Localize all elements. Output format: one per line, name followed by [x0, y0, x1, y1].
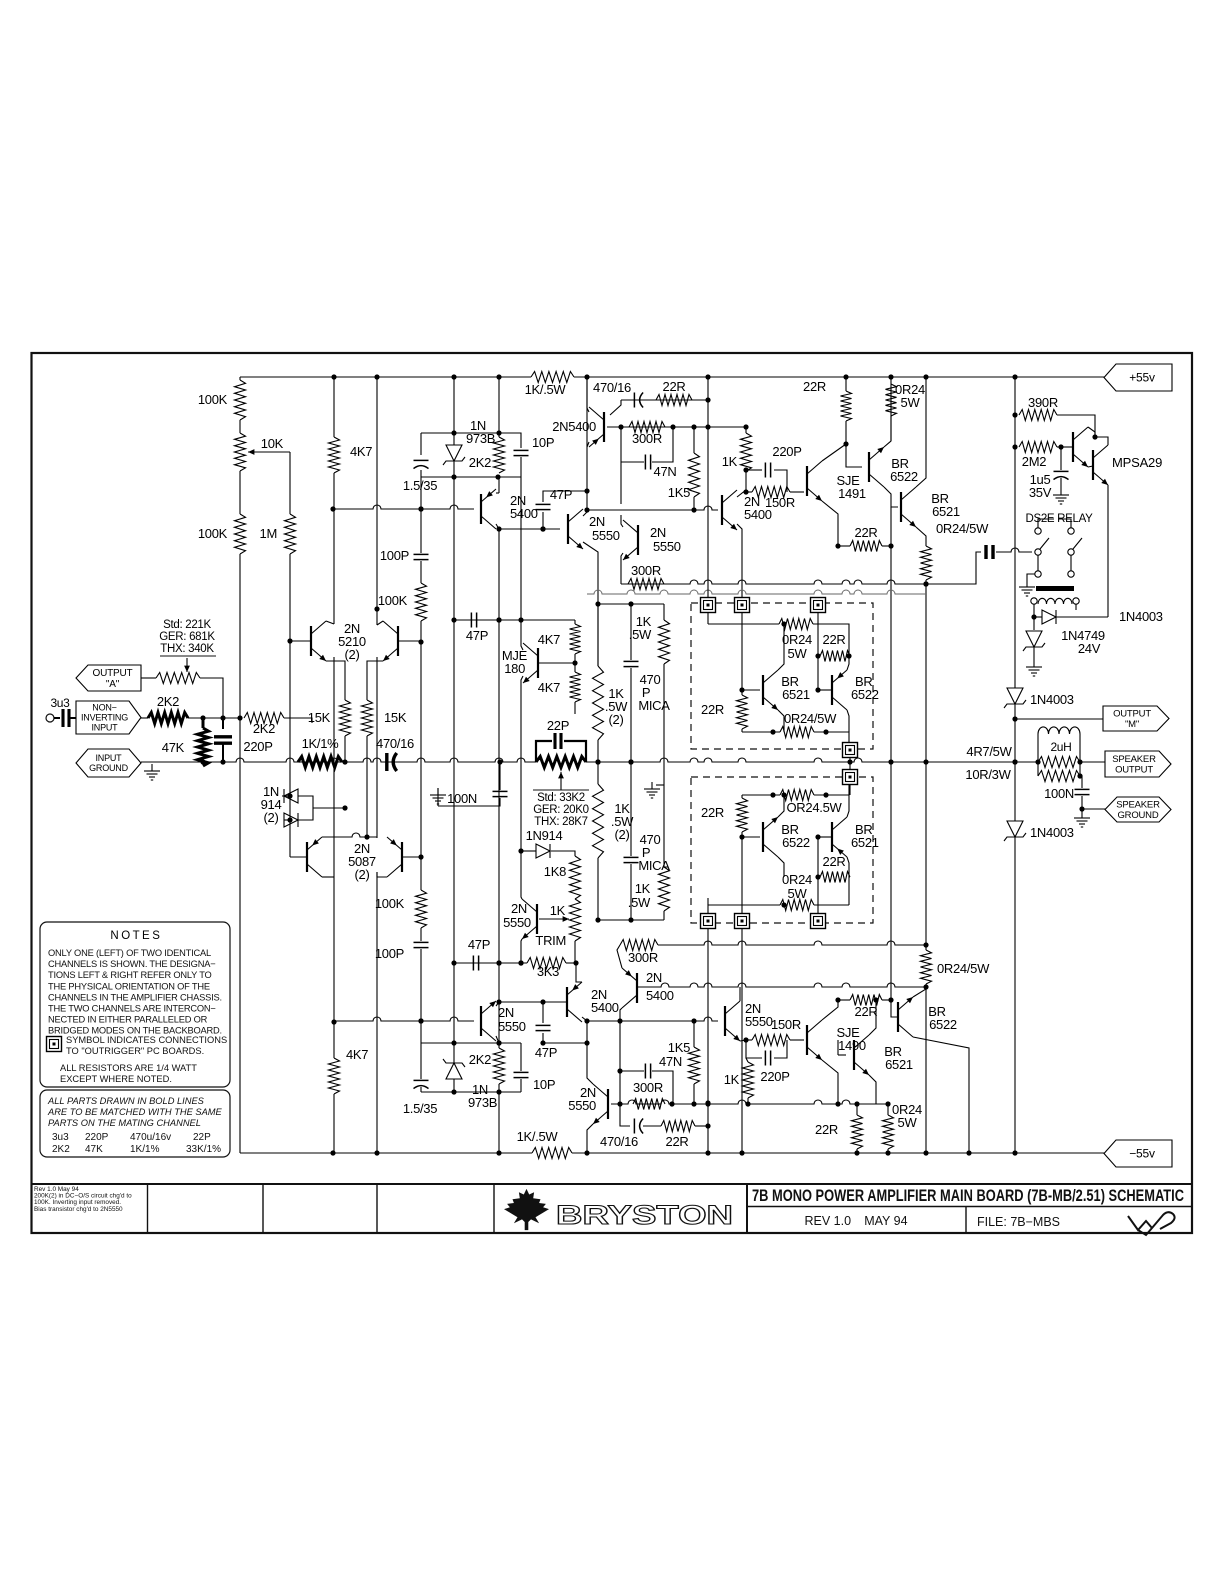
svg-text:GROUND: GROUND [1117, 810, 1158, 821]
junction [873, 997, 878, 1002]
svg-text:24V: 24V [1078, 641, 1101, 656]
capacitor 470/16 bold [387, 753, 397, 771]
wire x1015 lower [1014, 837, 1016, 1153]
wire y987 row [637, 983, 926, 987]
svg-text:6521: 6521 [932, 504, 960, 519]
label 22R [855, 1004, 878, 1019]
junction [595, 759, 600, 764]
Bryston logo text [556, 1200, 733, 1230]
svg-text:5400: 5400 [591, 1000, 619, 1015]
label 2N5550 [511, 901, 527, 916]
svg-text:−55v: −55v [1129, 1147, 1155, 1161]
junction [331, 1019, 336, 1024]
svg-text:0R24/5W: 0R24/5W [936, 521, 989, 536]
label 4K7 [538, 632, 560, 647]
diode 1N4003 lower [1004, 821, 1026, 841]
label 2N5400 [510, 493, 526, 508]
label 47N [654, 464, 677, 479]
label 1N4003 [1119, 609, 1163, 624]
wire to speaker flag [1080, 761, 1105, 763]
wire collector [913, 987, 926, 997]
zener 1N973B lower [443, 1059, 465, 1079]
junction [287, 638, 292, 643]
junction [595, 601, 600, 606]
capacitor 1.5/35 [414, 460, 429, 468]
label SJE1491 [837, 473, 861, 488]
resistor 1K/.5W rail top [531, 372, 574, 383]
wire [1057, 446, 1073, 448]
transistor 2N5550 VAS lower [481, 1001, 496, 1041]
junction [518, 848, 523, 853]
junction [1077, 759, 1082, 764]
capacitor 1.5/35 lower [414, 1080, 429, 1088]
label 15K [384, 710, 407, 725]
label 47P [550, 487, 572, 502]
label 10P [533, 1077, 555, 1092]
resistor 1K TRIM pot [570, 899, 581, 941]
wire x891 mid [890, 546, 892, 762]
resistor 100K second [235, 514, 246, 554]
wire [498, 1043, 500, 1048]
border frame [32, 353, 1193, 1233]
transistor 2N5550 trim [522, 899, 537, 939]
label 100P [375, 946, 404, 961]
wire emitter to outrigger [737, 524, 742, 598]
svg-text:4K7: 4K7 [538, 680, 560, 695]
notes outrigger text [66, 1035, 227, 1056]
svg-text:GER: 681K: GER: 681K [159, 631, 215, 643]
svg-text:47K: 47K [85, 1144, 103, 1155]
junction [770, 792, 775, 797]
wire x742 box1 [741, 612, 743, 690]
junction [923, 984, 928, 989]
junction [923, 581, 928, 586]
SPEAKER OUTPUT flag [1105, 751, 1171, 777]
svg-text:300R: 300R [628, 950, 658, 965]
svg-text:100K: 100K [378, 593, 408, 608]
svg-text:22R: 22R [823, 632, 846, 647]
wire y1021 left [333, 1017, 474, 1024]
label 22R [803, 379, 826, 394]
svg-text:2M2: 2M2 [1022, 454, 1046, 469]
wire collector 1 [1088, 427, 1095, 437]
wire left rail x240 [239, 554, 241, 1153]
wire 390R to collector [1057, 415, 1095, 437]
label BR6522 [891, 456, 908, 471]
resistor 1K8 [570, 856, 581, 899]
wire collector right 5087 [377, 872, 387, 877]
wire [202, 718, 205, 728]
wire base [838, 1054, 846, 1056]
wire x926 lower [925, 984, 927, 1153]
outrigger connection [701, 914, 716, 929]
label 0R24 5W [895, 382, 925, 397]
resistor 15K left [340, 700, 351, 736]
wire [693, 1021, 695, 1047]
junction [743, 1037, 748, 1042]
svg-text:4K7: 4K7 [350, 444, 372, 459]
wire x587 down [586, 1021, 588, 1043]
capacitor 22P bold [555, 733, 561, 749]
capacitor 47N [645, 455, 650, 470]
-55v supply flag [1104, 1140, 1172, 1167]
wire x421 top [420, 433, 422, 455]
label 2K2 [253, 721, 275, 736]
wire emitter x969 [913, 1037, 969, 1153]
svg-text:1K5: 1K5 [668, 485, 690, 500]
wire x334 to 4K7 [333, 876, 335, 1058]
svg-text:47P: 47P [535, 1045, 557, 1060]
label 2K2 [469, 1052, 491, 1067]
wire collector BR6522 [884, 377, 891, 447]
junction [496, 617, 501, 622]
wire emitter BR6521 [916, 527, 926, 546]
wire 47P drop [542, 1002, 544, 1023]
transistor 2N5400 predriver [722, 490, 737, 530]
wire [420, 1087, 422, 1092]
label 2N5400 [646, 970, 662, 985]
svg-text:3u3: 3u3 [52, 1132, 69, 1143]
wire [693, 497, 695, 510]
label 2uH [1050, 740, 1071, 754]
wire diode tap [313, 807, 345, 809]
transistor 2N5400 lower a [567, 982, 582, 1022]
svg-text:SYMBOL INDICATES CONNECTIONS: SYMBOL INDICATES CONNECTIONS [66, 1035, 227, 1045]
junction [418, 506, 423, 511]
label 150R [771, 1017, 801, 1032]
wire x454 long [453, 620, 455, 963]
wire collector right 5210 [377, 621, 383, 625]
outrigger connection [735, 914, 750, 929]
svg-text:2uH: 2uH [1050, 740, 1071, 754]
svg-text:1K: 1K [724, 1072, 740, 1087]
resistor 3K3 [527, 958, 566, 969]
label 3K3 [537, 964, 559, 979]
svg-text:47K: 47K [162, 740, 185, 755]
label 1K/.5W [525, 382, 567, 397]
svg-text:4K7: 4K7 [346, 1047, 368, 1062]
capacitor 1u5 35V [1054, 471, 1069, 479]
svg-text:5550: 5550 [653, 539, 681, 554]
svg-text:1490: 1490 [838, 1038, 866, 1053]
wire MJE base [538, 662, 575, 664]
svg-text:ARE TO BE MATCHED WITH THE SAM: ARE TO BE MATCHED WITH THE SAME [47, 1107, 223, 1117]
wire 2K2 to node [284, 718, 312, 723]
label 2N5550 [498, 1005, 514, 1020]
svg-text:220P: 220P [772, 444, 801, 459]
outrigger connection [843, 770, 858, 785]
wire collector [739, 987, 741, 1001]
label 100N [1044, 786, 1074, 801]
wire diode loop [298, 796, 313, 820]
svg-text:THE PHYSICAL ORIENTATION OF TH: THE PHYSICAL ORIENTATION OF THE [48, 981, 210, 991]
wire x631 cross mid [630, 668, 632, 856]
label 1N4003 [1030, 825, 1074, 840]
svg-text:10R/3W: 10R/3W [965, 767, 1011, 782]
svg-text:47P: 47P [468, 937, 490, 952]
wire [1034, 616, 1042, 618]
wire x521 down [520, 762, 522, 851]
wire [574, 702, 576, 714]
svg-text:300R: 300R [631, 563, 661, 578]
junction [287, 817, 292, 822]
capacitor 100N [493, 791, 508, 796]
svg-text:10P: 10P [532, 435, 554, 450]
label MPSA29 [1112, 455, 1162, 470]
resistor 2K2 second [244, 713, 284, 724]
diode 1N914 mid [536, 844, 550, 858]
wire emitter 5550b to 300R row [621, 553, 623, 584]
label 1N973B [470, 418, 486, 433]
wire [890, 507, 892, 546]
label OR24.5W [787, 800, 843, 815]
relay arm 2 [1073, 538, 1082, 549]
wire x926 mid [925, 762, 927, 945]
relay arm 1 [1040, 538, 1049, 549]
wire [574, 620, 576, 624]
svg-text:NON−: NON− [92, 703, 116, 713]
svg-text:22R: 22R [663, 379, 686, 394]
junction [815, 834, 820, 839]
svg-text:1N4003: 1N4003 [1030, 825, 1074, 840]
wire -55v rail right [572, 1150, 1104, 1155]
svg-text:5W: 5W [898, 1115, 918, 1130]
wire [693, 1084, 695, 1104]
wire collector [869, 1000, 876, 1035]
wire base BR6522 [818, 689, 832, 691]
SPEAKER GROUND flag [1105, 797, 1171, 822]
svg-text:470/16: 470/16 [600, 1134, 638, 1149]
label 300R [631, 563, 661, 578]
svg-text:EXCEPT WHERE NOTED.: EXCEPT WHERE NOTED. [60, 1074, 172, 1084]
svg-text:22P: 22P [193, 1132, 211, 1143]
capacitor 47P third [536, 1025, 551, 1030]
wire [620, 1070, 644, 1072]
svg-text:150R: 150R [771, 1017, 801, 1032]
wire [849, 784, 851, 795]
wire box1 row [708, 623, 779, 625]
wire [774, 470, 787, 492]
label 22R [666, 1134, 689, 1149]
wire [239, 377, 241, 380]
capacitor 470/16 lower [634, 1119, 643, 1134]
svg-text:100P: 100P [380, 548, 409, 563]
wire [708, 905, 780, 914]
svg-text:100P: 100P [375, 946, 404, 961]
svg-text:10K: 10K [261, 436, 284, 451]
wire x742 box2 [741, 837, 743, 914]
junction [1035, 759, 1040, 764]
svg-text:47P: 47P [466, 628, 488, 643]
inductor 2uH [1038, 727, 1080, 734]
label 47P [466, 628, 488, 643]
junction [1077, 773, 1082, 778]
outrigger connection [843, 743, 858, 758]
svg-text:.5W: .5W [628, 895, 651, 910]
resistor 1K/.5W rail bottom [532, 1148, 572, 1159]
title block divider [262, 1184, 264, 1233]
wire box2 top row [742, 794, 780, 796]
wire y400 row [621, 397, 711, 402]
wire emitter jog to 3K3 [566, 963, 582, 982]
wire x454 top [453, 377, 455, 445]
title block divider [493, 1184, 495, 1233]
wire x334 mid [333, 473, 335, 624]
label 390R [1028, 395, 1058, 410]
wire x621 down [620, 462, 622, 504]
wire [847, 857, 849, 877]
wire 47P to x587 [543, 1033, 587, 1043]
wire 22P loop [536, 741, 552, 762]
label 47N [659, 1054, 682, 1069]
resistor 2K2 bold input [148, 713, 188, 724]
wire emitter to 15K [326, 661, 345, 700]
label 10R/3W [965, 767, 1011, 782]
wire [663, 604, 665, 620]
wire +55v rail right [574, 374, 1104, 379]
svg-text:THX: 28K7: THX: 28K7 [534, 816, 588, 828]
resistor 1K/1% bold [298, 757, 342, 768]
label 1N973B [472, 1082, 488, 1097]
svg-text:REV 1.0 MAY 94: REV 1.0 MAY 94 [804, 1214, 907, 1228]
OUTPUT "M" flag [1103, 706, 1169, 731]
wire 47P to x587 [543, 491, 587, 502]
junction [628, 759, 633, 764]
junction [540, 1040, 545, 1045]
label 22R [701, 805, 724, 820]
svg-text:100N: 100N [1044, 786, 1074, 801]
svg-text:2N: 2N [511, 901, 527, 916]
resistor 100K mid [416, 583, 427, 621]
resistor 4R7/5W [1038, 757, 1080, 768]
resistor 0R24 5W box2 bottom [780, 900, 814, 911]
wire x454 down [453, 963, 455, 1063]
label 1.5/35 [403, 1101, 437, 1116]
capacitor 220P lower [765, 1051, 770, 1066]
wire x499 top [498, 377, 500, 437]
WP signature glyph [1128, 1212, 1175, 1235]
junction [835, 997, 840, 1002]
diode 1N4003 upper [1004, 688, 1026, 708]
label 470/16 [600, 1134, 638, 1149]
wire x664 cross mid [663, 664, 665, 785]
feedback pot arrow [184, 658, 190, 672]
capacitor 10P [514, 450, 529, 455]
relay coil [1038, 598, 1072, 604]
label 100P [380, 548, 409, 563]
junction [496, 960, 501, 965]
label 150R [765, 495, 795, 510]
svg-text:1.5/35: 1.5/35 [403, 1101, 437, 1116]
wire 22P loop [564, 741, 586, 762]
transistor 2N5550 first [568, 509, 583, 549]
zener 1N973B [443, 445, 465, 465]
svg-text:2N: 2N [589, 514, 605, 529]
junction [705, 1100, 710, 1105]
svg-text:10P: 10P [533, 1077, 555, 1092]
svg-text:Bias transistor chg'd to 2N555: Bias transistor chg'd to 2N5550 [34, 1206, 123, 1213]
wire emitter to rail [587, 1124, 593, 1153]
svg-text:Std: 221K: Std: 221K [163, 619, 211, 631]
label 2N5550 [589, 514, 605, 529]
svg-text:47N: 47N [659, 1054, 682, 1069]
resistor 300R mid [628, 579, 664, 590]
notes box [40, 922, 230, 1087]
resistor 1K .5W (2) lower [593, 784, 604, 858]
svg-text:0R24: 0R24 [782, 872, 812, 887]
wire [847, 795, 849, 817]
resistor 22R vert lower [852, 1115, 863, 1149]
junction [617, 1068, 622, 1073]
wire [887, 1149, 889, 1153]
svg-text:22R: 22R [666, 1134, 689, 1149]
wire mid ground line left [141, 758, 536, 765]
wire emitter down [1107, 485, 1109, 617]
wire base line y509 [330, 505, 474, 512]
+55v supply flag [1104, 364, 1172, 391]
svg-text:33K/1%: 33K/1% [186, 1144, 221, 1155]
wire 100N [499, 762, 501, 790]
junction [418, 854, 423, 859]
wire wiper down [289, 452, 291, 514]
svg-text:OUTPUT: OUTPUT [1113, 709, 1151, 720]
wire collector to y1021 [620, 1008, 622, 1021]
junction [743, 467, 748, 472]
junction [835, 543, 840, 548]
wire base [742, 689, 760, 691]
svg-text:1K: 1K [550, 903, 566, 918]
wire inductor right [1079, 734, 1081, 776]
wire [663, 785, 665, 867]
wire [420, 857, 422, 890]
wire [574, 654, 576, 672]
svg-text:7B MONO POWER AMPLIFIER MAIN B: 7B MONO POWER AMPLIFIER MAIN BOARD (7B-M… [752, 1187, 1184, 1205]
wire x587 [586, 447, 588, 510]
underline [533, 789, 589, 791]
svg-text:THE TWO CHANNELS ARE INTERCON−: THE TWO CHANNELS ARE INTERCON− [48, 1004, 216, 1014]
label Std 221K [163, 619, 211, 631]
label 100N [447, 791, 477, 806]
svg-text:100K: 100K [375, 896, 405, 911]
label 470/16 [376, 736, 414, 751]
wire [376, 609, 378, 625]
wire emitter [869, 1075, 876, 1104]
wire [856, 1149, 858, 1153]
wire x891 mid [890, 762, 892, 1000]
resistor 100K lower [416, 890, 427, 928]
wire [239, 420, 241, 433]
wire [707, 898, 709, 905]
transistor MJE180 [523, 643, 538, 683]
wire output M [1015, 718, 1103, 720]
wire x367 down [366, 736, 368, 838]
junction [888, 543, 893, 548]
ground relay [1019, 580, 1035, 596]
wire [344, 736, 346, 762]
junction [496, 526, 501, 531]
label 470P MICA [640, 672, 661, 687]
label 220P [772, 444, 801, 459]
wire [284, 819, 290, 821]
label 22R [823, 854, 846, 869]
svg-text:GER: 20K0: GER: 20K0 [533, 804, 588, 816]
wire [814, 904, 849, 906]
wire MJE collector [521, 620, 523, 650]
label 2K2 [469, 455, 491, 470]
10K pot wiper arrow [248, 449, 290, 455]
wire x818 box1 [817, 612, 819, 656]
wire y510 to predriver [587, 506, 718, 513]
